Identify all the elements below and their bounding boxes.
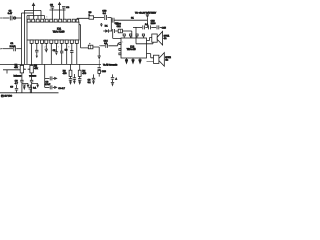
svg-text:C3: C3 bbox=[50, 3, 54, 6]
svg-text:C16: C16 bbox=[102, 70, 107, 73]
svg-text:2.2uF: 2.2uF bbox=[10, 45, 16, 48]
svg-text:R3: R3 bbox=[63, 70, 67, 73]
out arrow bbox=[54, 86, 57, 89]
out arrow bbox=[54, 77, 57, 80]
capacitor C13 bbox=[143, 25, 145, 29]
rail 2 bbox=[24, 10, 26, 64]
svg-text:TDA-7240: TDA-7240 bbox=[53, 30, 65, 33]
capacitor C2 bbox=[10, 16, 12, 21]
svg-text:0.1: 0.1 bbox=[33, 86, 37, 89]
potentiometer R2 (volume) bbox=[30, 65, 33, 73]
wire from IC1 right to IC2 bbox=[79, 25, 88, 48]
svg-text:4.7: 4.7 bbox=[15, 82, 19, 85]
svg-text:47k: 47k bbox=[34, 67, 38, 70]
svg-text:D1: D1 bbox=[105, 25, 109, 28]
svg-text:0.1: 0.1 bbox=[88, 81, 92, 84]
capacitor C4 with label bbox=[62, 6, 66, 8]
svg-text:9: 9 bbox=[68, 46, 69, 49]
svg-text:2: 2 bbox=[44, 46, 45, 49]
ground arrow bbox=[98, 55, 101, 57]
svg-text:C6: C6 bbox=[88, 78, 92, 81]
capacitor to ground bbox=[93, 74, 95, 78]
decoupling rail wire bbox=[50, 9, 66, 11]
capacitor C10b bbox=[29, 85, 31, 88]
svg-text:0.1: 0.1 bbox=[145, 23, 149, 26]
electrolytic C8 below pot1 bbox=[21, 73, 23, 80]
input jack J1 (left channel) bbox=[1, 17, 3, 19]
svg-text:balance: balance bbox=[14, 75, 22, 78]
ground arrow bbox=[36, 56, 38, 59]
svg-text:4Ω: 4Ω bbox=[165, 59, 168, 62]
svg-text:C3: C3 bbox=[45, 80, 49, 83]
svg-text:3: 3 bbox=[34, 16, 35, 19]
svg-text:C8: C8 bbox=[15, 79, 19, 82]
svg-text:2200: 2200 bbox=[151, 22, 157, 25]
cap to ground bottom middle bbox=[112, 74, 114, 77]
wire drops to IC pins bbox=[52, 10, 64, 19]
capacitor C11b bbox=[50, 76, 52, 80]
IC1 top pin boxes bbox=[27, 19, 78, 22]
potentiometer R1 (balance) bbox=[20, 65, 23, 73]
svg-text:1: 1 bbox=[122, 41, 123, 44]
speaker SPK1 bbox=[147, 38, 152, 41]
svg-text:R2: R2 bbox=[34, 64, 38, 67]
svg-text:4Ω: 4Ω bbox=[164, 37, 167, 40]
wire stubs below IC1 bbox=[31, 43, 33, 65]
capacitor C10 bbox=[105, 15, 107, 20]
supply arrow +V (mid) bbox=[59, 5, 61, 10]
svg-text:5: 5 bbox=[46, 16, 47, 19]
svg-text:SPK1: SPK1 bbox=[164, 34, 170, 37]
electrolytic C12 bbox=[118, 29, 122, 33]
wire down bbox=[110, 18, 112, 32]
ground arrow bbox=[22, 83, 28, 84]
svg-text:0.47: 0.47 bbox=[8, 12, 13, 15]
svg-text:(+) 12 VDC: (+) 12 VDC bbox=[1, 95, 12, 98]
svg-text:C12: C12 bbox=[117, 25, 122, 28]
capacitor C1 bbox=[14, 46, 16, 51]
svg-text:47k: 47k bbox=[14, 66, 18, 69]
top right wire bbox=[133, 26, 142, 28]
chain caps to bus bbox=[98, 60, 100, 68]
capacitor mid bbox=[73, 74, 75, 78]
svg-text:volume: volume bbox=[29, 75, 37, 78]
wire into IC2 bbox=[131, 31, 133, 38]
resistor R4 bbox=[79, 64, 81, 70]
capacitor C12b bbox=[50, 85, 52, 89]
svg-text:.1: .1 bbox=[115, 78, 118, 81]
capacitor C5 bbox=[35, 50, 38, 52]
output branch wires bbox=[44, 64, 46, 87]
svg-text:C15: C15 bbox=[162, 27, 167, 30]
svg-text:2200: 2200 bbox=[116, 23, 122, 26]
capacitor C15b bbox=[157, 25, 159, 29]
wire bbox=[3, 17, 10, 19]
svg-text:C4 4.7: C4 4.7 bbox=[58, 87, 65, 90]
svg-text:R4: R4 bbox=[82, 70, 86, 73]
capacitor C14b bbox=[149, 25, 151, 29]
node junction circle bbox=[13, 17, 15, 19]
wire bbox=[13, 17, 22, 19]
electrolytic C16 bbox=[88, 45, 93, 49]
electrolytic C13 below pot2 bbox=[31, 73, 33, 80]
svg-text:C2: C2 bbox=[9, 10, 13, 13]
supply arrow +V (left) bbox=[33, 6, 35, 14]
wire branch bbox=[40, 10, 42, 19]
wire from IC1 to right bbox=[77, 17, 89, 20]
ground arrow bbox=[23, 85, 25, 86]
svg-text:To All Grounds: To All Grounds bbox=[103, 63, 118, 66]
svg-text:C9: C9 bbox=[10, 85, 14, 88]
capacitor C6 bbox=[60, 51, 63, 53]
IC1 body bbox=[27, 22, 79, 40]
bottom-middle resistor R3 bbox=[70, 64, 72, 70]
diode D1 bbox=[103, 30, 105, 32]
wire harness top-left bbox=[22, 12, 34, 14]
svg-text:TO +14.4V BATTERY: TO +14.4V BATTERY bbox=[135, 12, 157, 15]
input jack J2 (right channel) bbox=[1, 48, 3, 50]
C14 coupling bbox=[100, 45, 105, 47]
svg-text:SPK2: SPK2 bbox=[165, 56, 171, 59]
svg-text:470: 470 bbox=[82, 72, 86, 75]
svg-text:7: 7 bbox=[58, 46, 59, 49]
svg-text:R1: R1 bbox=[15, 63, 19, 66]
svg-text:S1: S1 bbox=[131, 16, 134, 19]
supply terminal arrow bbox=[146, 18, 148, 27]
wire tee at left bbox=[3, 70, 20, 74]
ground arrow bbox=[32, 83, 38, 84]
+12V bus bbox=[0, 92, 59, 94]
svg-text:C1: C1 bbox=[10, 42, 14, 45]
ground bus below IC1 bbox=[0, 63, 101, 65]
left rail wire down to pots bbox=[21, 13, 23, 65]
capacitor C7 bbox=[70, 51, 73, 53]
ground bar arrow bbox=[55, 51, 58, 53]
ground bar arrow bbox=[45, 48, 48, 50]
svg-text:C4: C4 bbox=[66, 6, 70, 9]
ground chain left of diode bbox=[101, 22, 102, 24]
IC2 left pin stubs bbox=[118, 44, 121, 54]
speaker SPK2 bbox=[147, 54, 154, 58]
svg-text:470: 470 bbox=[63, 72, 67, 75]
svg-text:TDA-15: TDA-15 bbox=[127, 48, 136, 51]
IC1 bottom pin boxes bbox=[30, 40, 78, 43]
capacitor bbox=[113, 29, 115, 33]
IC2 top pin stubs bbox=[124, 36, 143, 38]
wire right to switch bbox=[114, 19, 147, 21]
svg-text:C13: C13 bbox=[151, 19, 156, 22]
IC2 bottom grounds bbox=[125, 58, 128, 63]
IC2 body bbox=[121, 38, 147, 58]
capacitor C11 bbox=[112, 18, 114, 23]
